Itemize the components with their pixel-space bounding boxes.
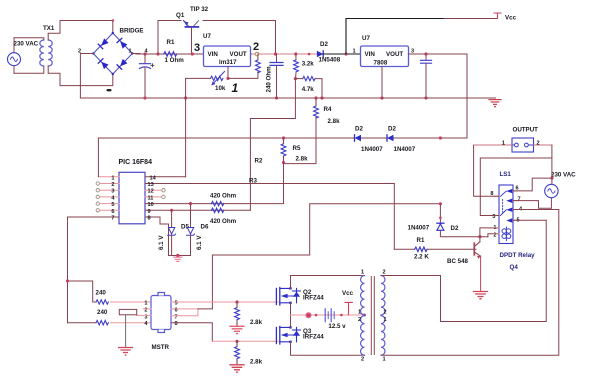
svg-text:12: 12	[148, 189, 154, 195]
svg-text:VIN: VIN	[208, 51, 219, 58]
pin 14 wire	[145, 176, 186, 178]
svg-text:2.8k: 2.8k	[328, 118, 341, 125]
svg-text:7: 7	[111, 216, 114, 222]
jumper box at pin3	[119, 309, 136, 314]
svg-text:D6: D6	[201, 224, 209, 231]
wire gray to ground	[125, 315, 127, 347]
svg-text:420 Ohm: 420 Ohm	[210, 218, 237, 225]
wire pot left to gnd	[186, 77, 211, 79]
wire PIC pin1 riser to diode rail	[97, 138, 99, 177]
diode D2 1N4007 left	[355, 135, 362, 141]
zener D5	[168, 228, 176, 256]
bridge rectifier BRIDGE	[92, 32, 133, 75]
wire pin6/7 net to D2 feed	[198, 204, 441, 309]
svg-text:BC 548: BC 548	[447, 258, 469, 265]
svg-text:1: 1	[144, 301, 147, 307]
svg-text:R5: R5	[293, 145, 301, 152]
wire zener bottom rail	[169, 255, 191, 257]
pin 13 rail R3	[145, 183, 394, 185]
resistor 240 upper	[96, 300, 108, 304]
svg-text:2: 2	[358, 317, 361, 323]
svg-text:TX1: TX1	[43, 25, 55, 32]
node base junction	[191, 52, 194, 55]
svg-text:6: 6	[175, 307, 178, 313]
transformer T1 primary	[361, 276, 365, 315]
diode D2 1N4007 vertical	[439, 204, 441, 223]
svg-text:1: 1	[384, 317, 387, 323]
svg-text:10: 10	[148, 202, 154, 208]
svg-text:1: 1	[502, 141, 505, 147]
gate rail Q3	[212, 340, 278, 342]
svg-text:6.1 V: 6.1 V	[196, 235, 203, 250]
wire relay pin 5 right	[513, 219, 546, 221]
transformer core	[371, 277, 374, 355]
node 2.8k no2 top	[235, 340, 238, 343]
svg-text:2: 2	[384, 310, 387, 316]
pin 4	[96, 195, 99, 198]
svg-text:7: 7	[518, 197, 521, 203]
wire vcc riser black	[346, 19, 444, 55]
svg-text:1: 1	[361, 270, 364, 276]
ground 2.8k no1	[230, 326, 244, 333]
diode UL	[98, 38, 108, 48]
transistor BC548	[474, 242, 480, 259]
svg-text:10k: 10k	[215, 85, 226, 92]
resistor R1 2.2K	[394, 247, 476, 251]
svg-text:Q1: Q1	[176, 12, 185, 19]
wire top rail to bridge top	[60, 21, 113, 34]
ground zeners	[176, 254, 179, 257]
ground MSTR	[119, 348, 133, 356]
resistor 420 Ohm upper	[211, 201, 223, 205]
node D2 top	[439, 202, 442, 205]
node 3.2k top	[294, 52, 297, 55]
pin 11	[145, 196, 162, 198]
node D5 riser	[170, 209, 173, 212]
diode LL	[98, 59, 108, 69]
node Q1 branch	[156, 52, 159, 55]
wire output pin1	[474, 144, 512, 146]
wire D5 riser	[171, 210, 173, 227]
node pin2 rail	[274, 52, 277, 55]
terminal Vcc	[494, 13, 501, 19]
wire 240 upper left	[68, 281, 97, 302]
diode D2 1N5408	[298, 51, 324, 57]
pin 3	[96, 189, 99, 192]
svg-text:2.8k: 2.8k	[250, 319, 263, 326]
wire Q2 source down	[290, 303, 292, 315]
svg-text:U7: U7	[362, 35, 370, 42]
svg-text:240 Ohm: 240 Ohm	[266, 66, 273, 93]
svg-text:OUTPUT: OUTPUT	[513, 127, 539, 134]
gate rail Q2	[171, 301, 278, 303]
wire 7808 out rail	[409, 53, 468, 55]
potentiometer 10k	[211, 72, 225, 86]
resistor 2.8k no2	[235, 341, 240, 364]
svg-text:Vcc: Vcc	[505, 15, 517, 22]
svg-text:MSTR: MSTR	[152, 344, 170, 351]
svg-text:VIN: VIN	[365, 51, 376, 58]
pin2 open terminal	[255, 52, 259, 56]
wire relay pin 4 right	[513, 209, 559, 211]
svg-text:7: 7	[175, 314, 178, 320]
node bridge top corner	[112, 19, 115, 22]
transformer TX1 secondary coil	[48, 40, 52, 66]
svg-text:2: 2	[361, 357, 364, 363]
op-amp U7 lm317 regulator	[204, 46, 251, 67]
pin 6	[96, 209, 99, 212]
svg-text:U7: U7	[203, 33, 211, 40]
svg-text:13: 13	[148, 182, 154, 188]
svg-text:8: 8	[148, 216, 151, 222]
svg-text:420 Ohm: 420 Ohm	[210, 193, 237, 200]
capacitor C1	[140, 54, 154, 98]
svg-text:1: 1	[383, 357, 386, 363]
terminal Vcc tap	[345, 302, 352, 315]
svg-text:R4: R4	[324, 106, 332, 113]
svg-text:Q4: Q4	[510, 264, 519, 271]
relay coil	[502, 227, 511, 241]
svg-text:VOUT: VOUT	[386, 51, 403, 58]
wire coil pin2 riser	[488, 234, 499, 237]
svg-text:LS1: LS1	[500, 171, 512, 178]
wire 240 lower left	[68, 322, 97, 324]
transistor Q3 IRFZ44	[276, 326, 300, 344]
wire primary top	[14, 38, 44, 40]
wire 7808 gnd pin	[381, 67, 383, 99]
wire divider tap down to R2 link	[250, 79, 295, 119]
resistor 240 lower	[96, 321, 108, 325]
svg-text:1N5408: 1N5408	[319, 57, 341, 64]
svg-text:8: 8	[175, 321, 178, 327]
resistor 4.7k	[303, 76, 315, 80]
pin 12	[145, 189, 162, 191]
svg-text:D2: D2	[320, 41, 328, 48]
resistor R4	[314, 98, 319, 118]
svg-text:R1: R1	[167, 39, 175, 46]
svg-text:2: 2	[493, 232, 496, 238]
wire 7808 out riser to diode rail	[466, 54, 468, 138]
svg-text:3: 3	[194, 42, 200, 54]
node cap3 top	[424, 52, 427, 55]
wire Q1 collector rail riser	[158, 21, 181, 55]
connector J1	[512, 138, 534, 152]
svg-text:5: 5	[111, 202, 114, 208]
resistor 3.2k	[294, 60, 299, 72]
wire Q3 drain up	[290, 315, 292, 327]
svg-text:6.1 V: 6.1 V	[158, 235, 165, 250]
svg-text:11: 11	[148, 195, 154, 201]
diode rail	[98, 137, 467, 139]
svg-text:2: 2	[144, 307, 147, 313]
diode UR	[117, 38, 127, 48]
svg-text:2: 2	[111, 182, 114, 188]
svg-text:1: 1	[353, 49, 356, 55]
ground symbol right	[489, 100, 501, 107]
svg-text:D2: D2	[355, 126, 363, 133]
wire Q1 collector to pin2 node	[203, 21, 276, 55]
svg-text:TIP 32: TIP 32	[190, 6, 209, 13]
svg-text:1N4007: 1N4007	[408, 225, 430, 232]
wire 240 upper right to MSTR pin1	[111, 301, 151, 303]
relay contacts	[506, 189, 512, 223]
resistor 420 Ohm lower	[211, 208, 223, 212]
wire secondary bottom	[48, 66, 113, 86]
svg-text:lm317: lm317	[219, 59, 237, 66]
wire secondary top rail	[381, 220, 546, 321]
diode LR	[117, 59, 127, 69]
svg-text:3: 3	[111, 189, 114, 195]
node cap1 top	[143, 52, 146, 55]
wire BC548 emitter to gnd	[480, 256, 482, 291]
svg-text:4.7k: 4.7k	[302, 86, 315, 93]
node 2.8k no1 top	[235, 300, 238, 303]
svg-text:7808: 7808	[374, 60, 388, 67]
wire R3 riser	[393, 184, 395, 250]
svg-text:1: 1	[358, 310, 361, 316]
svg-text:1: 1	[111, 175, 114, 181]
ground BC548	[474, 292, 488, 299]
svg-text:VOUT: VOUT	[230, 51, 247, 58]
wire primary bottom	[14, 66, 44, 73]
MSTR pin2 stub	[143, 308, 151, 310]
wire relay pin3 left	[480, 158, 552, 216]
node vcc riser	[344, 52, 347, 55]
ground 2.8k no2	[230, 365, 244, 372]
svg-text:2: 2	[537, 141, 540, 147]
svg-text:1: 1	[129, 49, 132, 55]
node coil drive	[478, 235, 481, 238]
zener D6	[187, 228, 195, 256]
AC source 230VAC right	[545, 178, 558, 198]
transistor Q2 IRFZ44	[276, 287, 300, 305]
pin 1	[98, 176, 119, 178]
wire Q3 source down	[291, 342, 365, 355]
wire bridge left to AC leg	[80, 54, 93, 99]
svg-text:240: 240	[96, 290, 107, 297]
svg-text:6: 6	[111, 209, 114, 215]
svg-text:1 Ohm: 1 Ohm	[165, 57, 185, 64]
resistor R5	[281, 138, 286, 163]
capacitor C2	[270, 54, 283, 98]
svg-text:2.8k: 2.8k	[296, 156, 309, 163]
svg-text:5: 5	[175, 301, 178, 307]
node output junction	[550, 177, 553, 180]
wire Q2 drain up	[291, 276, 365, 289]
svg-text:R1: R1	[417, 237, 425, 244]
resistor 240 Ohm	[255, 60, 260, 73]
svg-text:R2: R2	[255, 158, 263, 165]
battery 12.5 v	[325, 309, 334, 322]
gnd rail	[80, 97, 495, 99]
pin 9 rail	[145, 209, 250, 211]
pin 10 rail	[145, 203, 284, 205]
svg-text:D2: D2	[388, 126, 396, 133]
PIC body U3	[119, 172, 145, 224]
wire R2 riser	[249, 119, 251, 211]
svg-text:12.5 v: 12.5 v	[328, 323, 346, 330]
main +V rail	[132, 53, 252, 56]
svg-text:DPDT Relay: DPDT Relay	[500, 252, 536, 259]
transformer TX1 primary coil	[40, 40, 44, 66]
relay body	[499, 185, 513, 244]
wire output pin2	[534, 144, 552, 146]
svg-text:1N4007: 1N4007	[394, 146, 416, 153]
pin 7 wire	[68, 216, 120, 218]
resistor R1 1 Ohm	[164, 52, 177, 57]
svg-text:1: 1	[232, 81, 239, 95]
transistor Q1 TIP32	[184, 21, 199, 55]
svg-text:230 VAC: 230 VAC	[551, 172, 576, 179]
wire secondary top to top rail	[48, 21, 60, 41]
wire relay pin8 left	[474, 145, 499, 196]
svg-text:2: 2	[253, 41, 259, 53]
svg-text:14: 14	[150, 175, 157, 181]
pin 8 wire	[145, 217, 169, 256]
wire secondary bottom rail	[381, 210, 559, 356]
diode D2 1N4007 right	[387, 135, 394, 141]
MSTR pin3 stub	[137, 314, 151, 316]
node ADJ	[226, 77, 229, 80]
wire 4.7k right down to gnd	[315, 79, 322, 98]
svg-text:2: 2	[383, 270, 386, 276]
wire MSTR pin8	[171, 323, 212, 342]
center tap rail	[291, 314, 365, 316]
svg-text:2.8k: 2.8k	[250, 359, 263, 366]
wire vcc maroon	[444, 18, 498, 20]
capacitor C3	[421, 54, 432, 98]
svg-text:BRIDGE: BRIDGE	[120, 28, 144, 35]
svg-text:2.2 K: 2.2 K	[414, 254, 429, 261]
wire 240 lower right to MSTR pin4	[111, 322, 151, 324]
svg-text:3.2k: 3.2k	[302, 61, 315, 68]
relay pin stubs	[494, 191, 518, 234]
svg-text:PIC 16F84: PIC 16F84	[119, 159, 153, 166]
wire PIC pin7 riser	[67, 217, 69, 323]
wire relay pin 6 right	[513, 178, 552, 191]
polarity mark under bridge	[107, 89, 112, 91]
resistor 2.8k no1	[235, 302, 240, 326]
svg-text:IRFZ44: IRFZ44	[303, 334, 324, 341]
node R5 bottom	[282, 161, 285, 164]
svg-text:3: 3	[492, 214, 495, 220]
node center junction	[306, 312, 312, 318]
wire R5 bottom to pin10 rail	[283, 163, 285, 204]
oscillator MSTR	[151, 293, 171, 333]
node D6 riser	[189, 202, 192, 205]
AC source V1 230VAC	[8, 38, 21, 74]
voltage regulator U7 7808	[361, 46, 409, 67]
wire D6 riser	[190, 204, 192, 227]
wire relay pin 7 right	[513, 198, 551, 208]
svg-text:9: 9	[148, 209, 151, 215]
svg-text:IRFZ44: IRFZ44	[303, 295, 324, 302]
wire R4 bottom to R5 bottom	[284, 118, 317, 163]
wire black segment to U7	[323, 53, 360, 55]
wire pin14 riser	[185, 78, 187, 176]
wire pot right to 240 Ohm	[228, 72, 258, 79]
svg-text:1N4007: 1N4007	[361, 146, 383, 153]
wire BC548 collector riser	[479, 237, 481, 242]
svg-text:Vcc: Vcc	[342, 290, 354, 297]
transformer T1 secondary	[381, 276, 385, 315]
svg-text:230 VAC: 230 VAC	[14, 40, 39, 47]
pin 5	[96, 202, 99, 205]
svg-text:D2: D2	[451, 225, 459, 232]
wire MSTR pin6+7 jog	[171, 309, 198, 316]
node divider tap	[294, 77, 297, 80]
svg-text:240: 240	[97, 309, 108, 316]
wire ADJ pin down	[227, 67, 229, 79]
pin 2	[96, 182, 99, 185]
